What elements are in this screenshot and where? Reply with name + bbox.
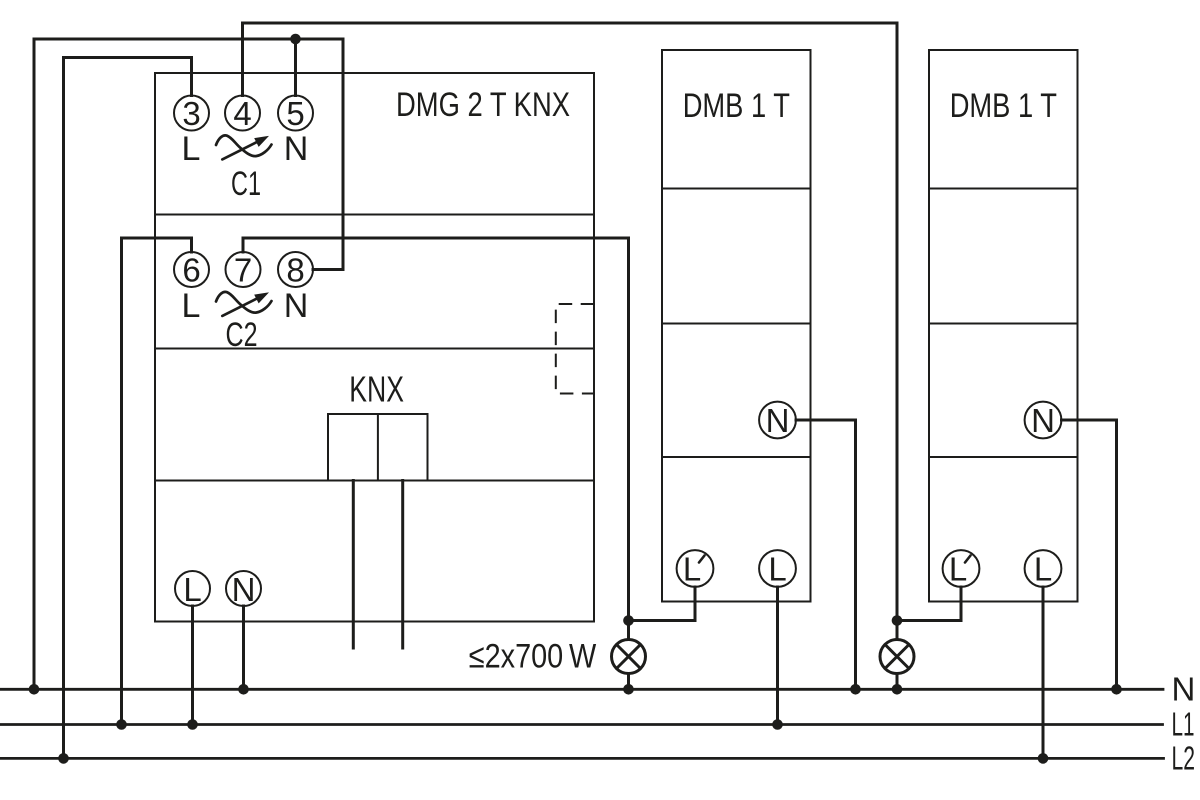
- DMB1 terminal L-prime circle: [677, 550, 714, 587]
- wire DMB2 L to L2 bus: [1042, 587, 1045, 758]
- wire L2 feed to terminal 3: [64, 58, 192, 759]
- wire DMG N to N bus: [242, 606, 245, 689]
- svg-text:C1: C1: [231, 165, 261, 203]
- wire DMB1 L-prime branch: [629, 587, 696, 621]
- bus N line: [0, 688, 1163, 691]
- junction dot lamp E2 branch: [892, 615, 903, 626]
- wire KNX bus pigtail 1: [352, 481, 355, 649]
- DMG divider 2: [155, 348, 594, 350]
- DMG 2 T KNX enclosure: [155, 73, 594, 622]
- svg-text:L: L: [183, 571, 201, 608]
- terminal 3 circle: [174, 96, 209, 131]
- junction dot L2 bus left: [58, 753, 69, 764]
- DMB2 divider 1: [929, 188, 1078, 190]
- DMB2 divider 2: [929, 323, 1078, 325]
- terminal 8 circle: [278, 252, 313, 287]
- junction dot lamp E1 branch: [623, 615, 634, 626]
- DMB2 enclosure: [929, 50, 1078, 602]
- wire DMB1 N to N bus: [796, 420, 856, 689]
- DMB2 terminal L-prime circle: [943, 550, 980, 587]
- terminal 6 circle: [174, 252, 209, 287]
- terminal 7 circle: [226, 252, 261, 287]
- bus L2 line: [0, 757, 1164, 760]
- DMB1 divider 1: [662, 188, 811, 190]
- wire lamp E2 to N bus: [896, 675, 899, 689]
- junction dot N bus lamp E1: [623, 684, 634, 695]
- svg-text:N: N: [1031, 402, 1055, 439]
- terminal 5 circle: [278, 96, 313, 131]
- svg-text:N: N: [232, 571, 256, 608]
- DMB2 divider 3: [929, 456, 1078, 458]
- dimmer symbol C1: [216, 135, 272, 159]
- wire KNX bus pigtail 2: [401, 481, 404, 649]
- DMB1 enclosure: [662, 50, 811, 602]
- svg-text:7: 7: [234, 252, 252, 289]
- svg-text:N: N: [284, 287, 309, 325]
- dimmer symbol C2: [216, 292, 272, 316]
- lamp E2: [880, 640, 914, 674]
- DMG divider 3: [155, 480, 594, 482]
- wire DMB2 N to N bus: [1062, 420, 1117, 689]
- svg-text:L1: L1: [1172, 706, 1195, 743]
- KNX connector block: [328, 414, 428, 481]
- svg-text:L: L: [182, 287, 201, 325]
- svg-text:DMG 2 T KNX: DMG 2 T KNX: [396, 86, 570, 124]
- junction dot L1 bus DMB1: [772, 719, 783, 730]
- DMB1 L-prime tick: [699, 556, 705, 563]
- wire C2-output: terminal 7 up, across, down to lamp E1: [243, 238, 629, 638]
- DMB2 L-prime tick: [965, 556, 971, 563]
- DMG terminal N circle: [226, 571, 261, 606]
- DMG terminal L circle: [175, 571, 210, 606]
- svg-text:N: N: [1172, 671, 1196, 708]
- svg-text:6: 6: [182, 252, 200, 289]
- svg-text:5: 5: [286, 95, 304, 132]
- DMG divider 1: [155, 214, 594, 216]
- DMB1 divider 2: [662, 323, 811, 325]
- terminal 4 circle: [225, 96, 260, 131]
- DMB2 terminal L circle: [1025, 550, 1062, 587]
- svg-text:8: 8: [286, 252, 304, 289]
- junction dot N bus left: [29, 684, 40, 695]
- wire DMB1 L to L1 bus: [776, 587, 779, 725]
- svg-text:L: L: [1034, 551, 1052, 588]
- KNX connector divider: [377, 414, 379, 481]
- junction dot N bus DMB1: [850, 684, 861, 695]
- wire N net: left drop to N bus, across, down to terminal 8 stub: [34, 39, 343, 689]
- junction dot N bus DMG N: [238, 684, 249, 695]
- junction dot N bus DMB2: [1111, 684, 1122, 695]
- wire lamp E1 to N bus: [627, 675, 630, 689]
- svg-text:N: N: [766, 402, 790, 439]
- wire DMB2 L-prime branch: [897, 587, 961, 621]
- svg-text:KNX: KNX: [349, 369, 404, 410]
- svg-text:L: L: [949, 551, 967, 588]
- junction dot N net / terminal 5: [290, 34, 301, 45]
- svg-text:C2: C2: [226, 316, 258, 354]
- svg-text:L: L: [683, 551, 701, 588]
- junction dot N bus lamp E2: [892, 684, 903, 695]
- bus L1 line: [0, 723, 1163, 726]
- dashed auxiliary outline: [556, 304, 594, 394]
- svg-text:≤2x700 W: ≤2x700 W: [469, 638, 597, 676]
- svg-text:L2: L2: [1172, 740, 1196, 777]
- DMB1 terminal N circle: [759, 402, 796, 439]
- DMB1 terminal L circle: [759, 550, 796, 587]
- junction dot L2 bus DMB2: [1038, 753, 1049, 764]
- wire C1-output: terminal 4 up, across top, down to lamp E2: [243, 23, 898, 638]
- junction dot L1 bus DMG L: [187, 719, 198, 730]
- svg-text:4: 4: [233, 95, 251, 132]
- junction dot L1 bus terminal-6 feed: [116, 719, 127, 730]
- wire terminal 5 drop: [294, 39, 297, 96]
- lamp E1: [612, 640, 646, 674]
- DMB2 terminal N circle: [1025, 402, 1062, 439]
- svg-text:N: N: [284, 130, 309, 168]
- svg-text:L: L: [182, 130, 201, 168]
- wire L1 feed to terminal 6: [122, 238, 192, 725]
- svg-text:3: 3: [182, 95, 200, 132]
- DMB1 divider 3: [662, 456, 811, 458]
- wire DMG L to L1 bus: [191, 606, 194, 725]
- svg-text:L: L: [768, 551, 786, 588]
- svg-text:DMB 1 T: DMB 1 T: [950, 87, 1057, 125]
- svg-text:DMB 1 T: DMB 1 T: [683, 87, 790, 125]
